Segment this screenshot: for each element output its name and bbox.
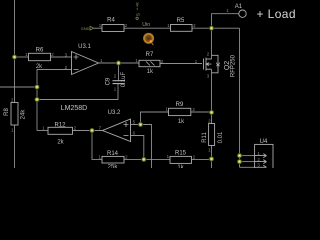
resistor R11 vertical [209, 124, 215, 146]
svg-text:1: 1 [257, 151, 260, 156]
wire U3.2 output to R14 [92, 131, 103, 160]
resistor R14 [102, 156, 124, 163]
wire R11 bottom [211, 146, 213, 169]
svg-text:LM258D: LM258D [61, 105, 87, 112]
svg-text:1: 1 [25, 52, 28, 57]
wire U3.2 pin5 [131, 125, 152, 169]
wire R6 to U3.1 +in [51, 56, 72, 58]
connector A1 circle [239, 10, 246, 17]
svg-text:R9: R9 [176, 102, 184, 108]
svg-text:Uin: Uin [142, 22, 150, 28]
svg-text:R5: R5 [177, 18, 185, 24]
wire R12 left [37, 130, 48, 132]
svg-text:5: 5 [133, 119, 136, 124]
svg-text:1: 1 [114, 87, 117, 92]
svg-text:2: 2 [192, 107, 195, 112]
resistor R4 [102, 25, 124, 32]
svg-text:R12: R12 [54, 122, 66, 128]
op-amp U3.1 triangle [72, 52, 99, 75]
svg-text:2: 2 [193, 155, 196, 160]
svg-text:1k: 1k [177, 165, 184, 168]
wire source down to R11 [211, 69, 213, 123]
svg-text:1: 1 [208, 148, 211, 153]
svg-text:R15: R15 [175, 151, 187, 157]
svg-text:2k: 2k [36, 64, 43, 70]
orange cursor highlight [143, 33, 154, 46]
svg-text:U3.2: U3.2 [108, 110, 121, 116]
wire U3.2 pin6 [131, 136, 144, 160]
wire U4 pin3 [240, 166, 255, 168]
wire U3.1 -in feedback [37, 70, 72, 131]
net label GND [81, 26, 90, 31]
wire R5 to U4 column [192, 27, 240, 29]
svg-text:R14: R14 [107, 151, 119, 157]
wire R14 to R15 [124, 158, 170, 160]
svg-text:U3.1: U3.1 [78, 44, 91, 50]
svg-text:3: 3 [207, 74, 210, 79]
wire R15 right [192, 158, 212, 160]
svg-text:U4: U4 [260, 139, 268, 145]
svg-text:2: 2 [125, 23, 128, 28]
svg-text:2: 2 [51, 52, 54, 57]
svg-text:C9: C9 [106, 77, 112, 85]
svg-text:2: 2 [207, 51, 210, 56]
U4 pin3 arrow [255, 165, 267, 167]
svg-text:1: 1 [167, 154, 170, 159]
svg-text:25k: 25k [108, 165, 119, 169]
U4 pin1 arrow [255, 154, 267, 158]
wire R6 tap [15, 56, 29, 58]
svg-text:2: 2 [74, 125, 77, 130]
labels: component names [4, 4, 268, 157]
svg-text:1: 1 [11, 128, 14, 133]
svg-text:R11: R11 [202, 132, 208, 143]
resistor R5 [171, 25, 193, 32]
svg-text:1: 1 [167, 23, 170, 28]
svg-text:R6: R6 [36, 47, 44, 53]
svg-text:2k: 2k [57, 140, 64, 146]
top mystery marker [136, 3, 142, 20]
wire drain [211, 28, 213, 59]
resistor R15 [170, 156, 192, 163]
svg-text:1: 1 [226, 8, 229, 13]
svg-text:2: 2 [257, 157, 260, 162]
svg-text:2: 2 [193, 23, 196, 28]
resistor R12 [48, 127, 73, 134]
svg-text:S: S [136, 13, 142, 16]
wire R9 right [191, 111, 212, 113]
capacitor C9 plates [113, 81, 125, 84]
svg-text:2: 2 [208, 118, 211, 123]
svg-text:R8: R8 [4, 108, 10, 116]
svg-text:GND: GND [81, 26, 90, 31]
svg-text:1: 1 [165, 107, 168, 112]
resistor R6 [29, 53, 51, 60]
wire GND to R4 [94, 27, 103, 29]
net label GND arrow [90, 26, 94, 30]
svg-text:2: 2 [114, 74, 117, 79]
wire y99.5 C9 bottom [37, 84, 118, 100]
wire U4 pin1 [240, 155, 255, 157]
svg-text:1: 1 [42, 125, 45, 130]
U4 pin2 arrow [255, 160, 267, 164]
svg-text:7: 7 [99, 125, 102, 130]
labels: values [21, 64, 224, 171]
wire R9 left to U3.2 pin5 [141, 112, 169, 125]
svg-text:RFP250: RFP250 [231, 54, 237, 77]
svg-text:1: 1 [100, 58, 103, 63]
resistor R8 vertical [11, 103, 18, 126]
wire left rail vertical [14, 0, 16, 168]
svg-text:6: 6 [133, 131, 136, 136]
wire R12 right [73, 130, 93, 132]
svg-text:1k: 1k [178, 119, 185, 125]
wire U4 pin2 [240, 161, 255, 163]
svg-text:24k: 24k [21, 109, 27, 120]
svg-text:R4: R4 [107, 18, 115, 24]
resistor R7 [139, 60, 160, 66]
svg-text:1: 1 [98, 154, 101, 159]
wire C9 top [118, 63, 120, 81]
op-amp U3.2 triangle mirrored [103, 119, 131, 142]
svg-text:1: 1 [99, 23, 102, 28]
resistor R9 [169, 108, 191, 115]
wire drain branch up to A1 [212, 14, 239, 29]
svg-text:0.01: 0.01 [218, 131, 224, 143]
svg-text:A1: A1 [235, 4, 243, 10]
svg-text:R7: R7 [146, 52, 154, 58]
svg-text:2: 2 [11, 97, 14, 102]
wire U4 column [239, 28, 241, 167]
transistor Q2 MOSFET [203, 59, 205, 70]
svg-text:2: 2 [125, 154, 128, 159]
svg-text:0.1uF: 0.1uF [121, 71, 127, 87]
wire R4 to R5 [124, 27, 171, 29]
svg-text:+ Load: + Load [257, 7, 296, 21]
connector U4 box [255, 144, 273, 170]
svg-text:1: 1 [135, 58, 138, 63]
wire R7 to gate [160, 63, 202, 65]
wire U3.1 output [99, 62, 140, 64]
wire y87 to left edge [0, 86, 37, 88]
svg-text:1k: 1k [147, 69, 154, 75]
